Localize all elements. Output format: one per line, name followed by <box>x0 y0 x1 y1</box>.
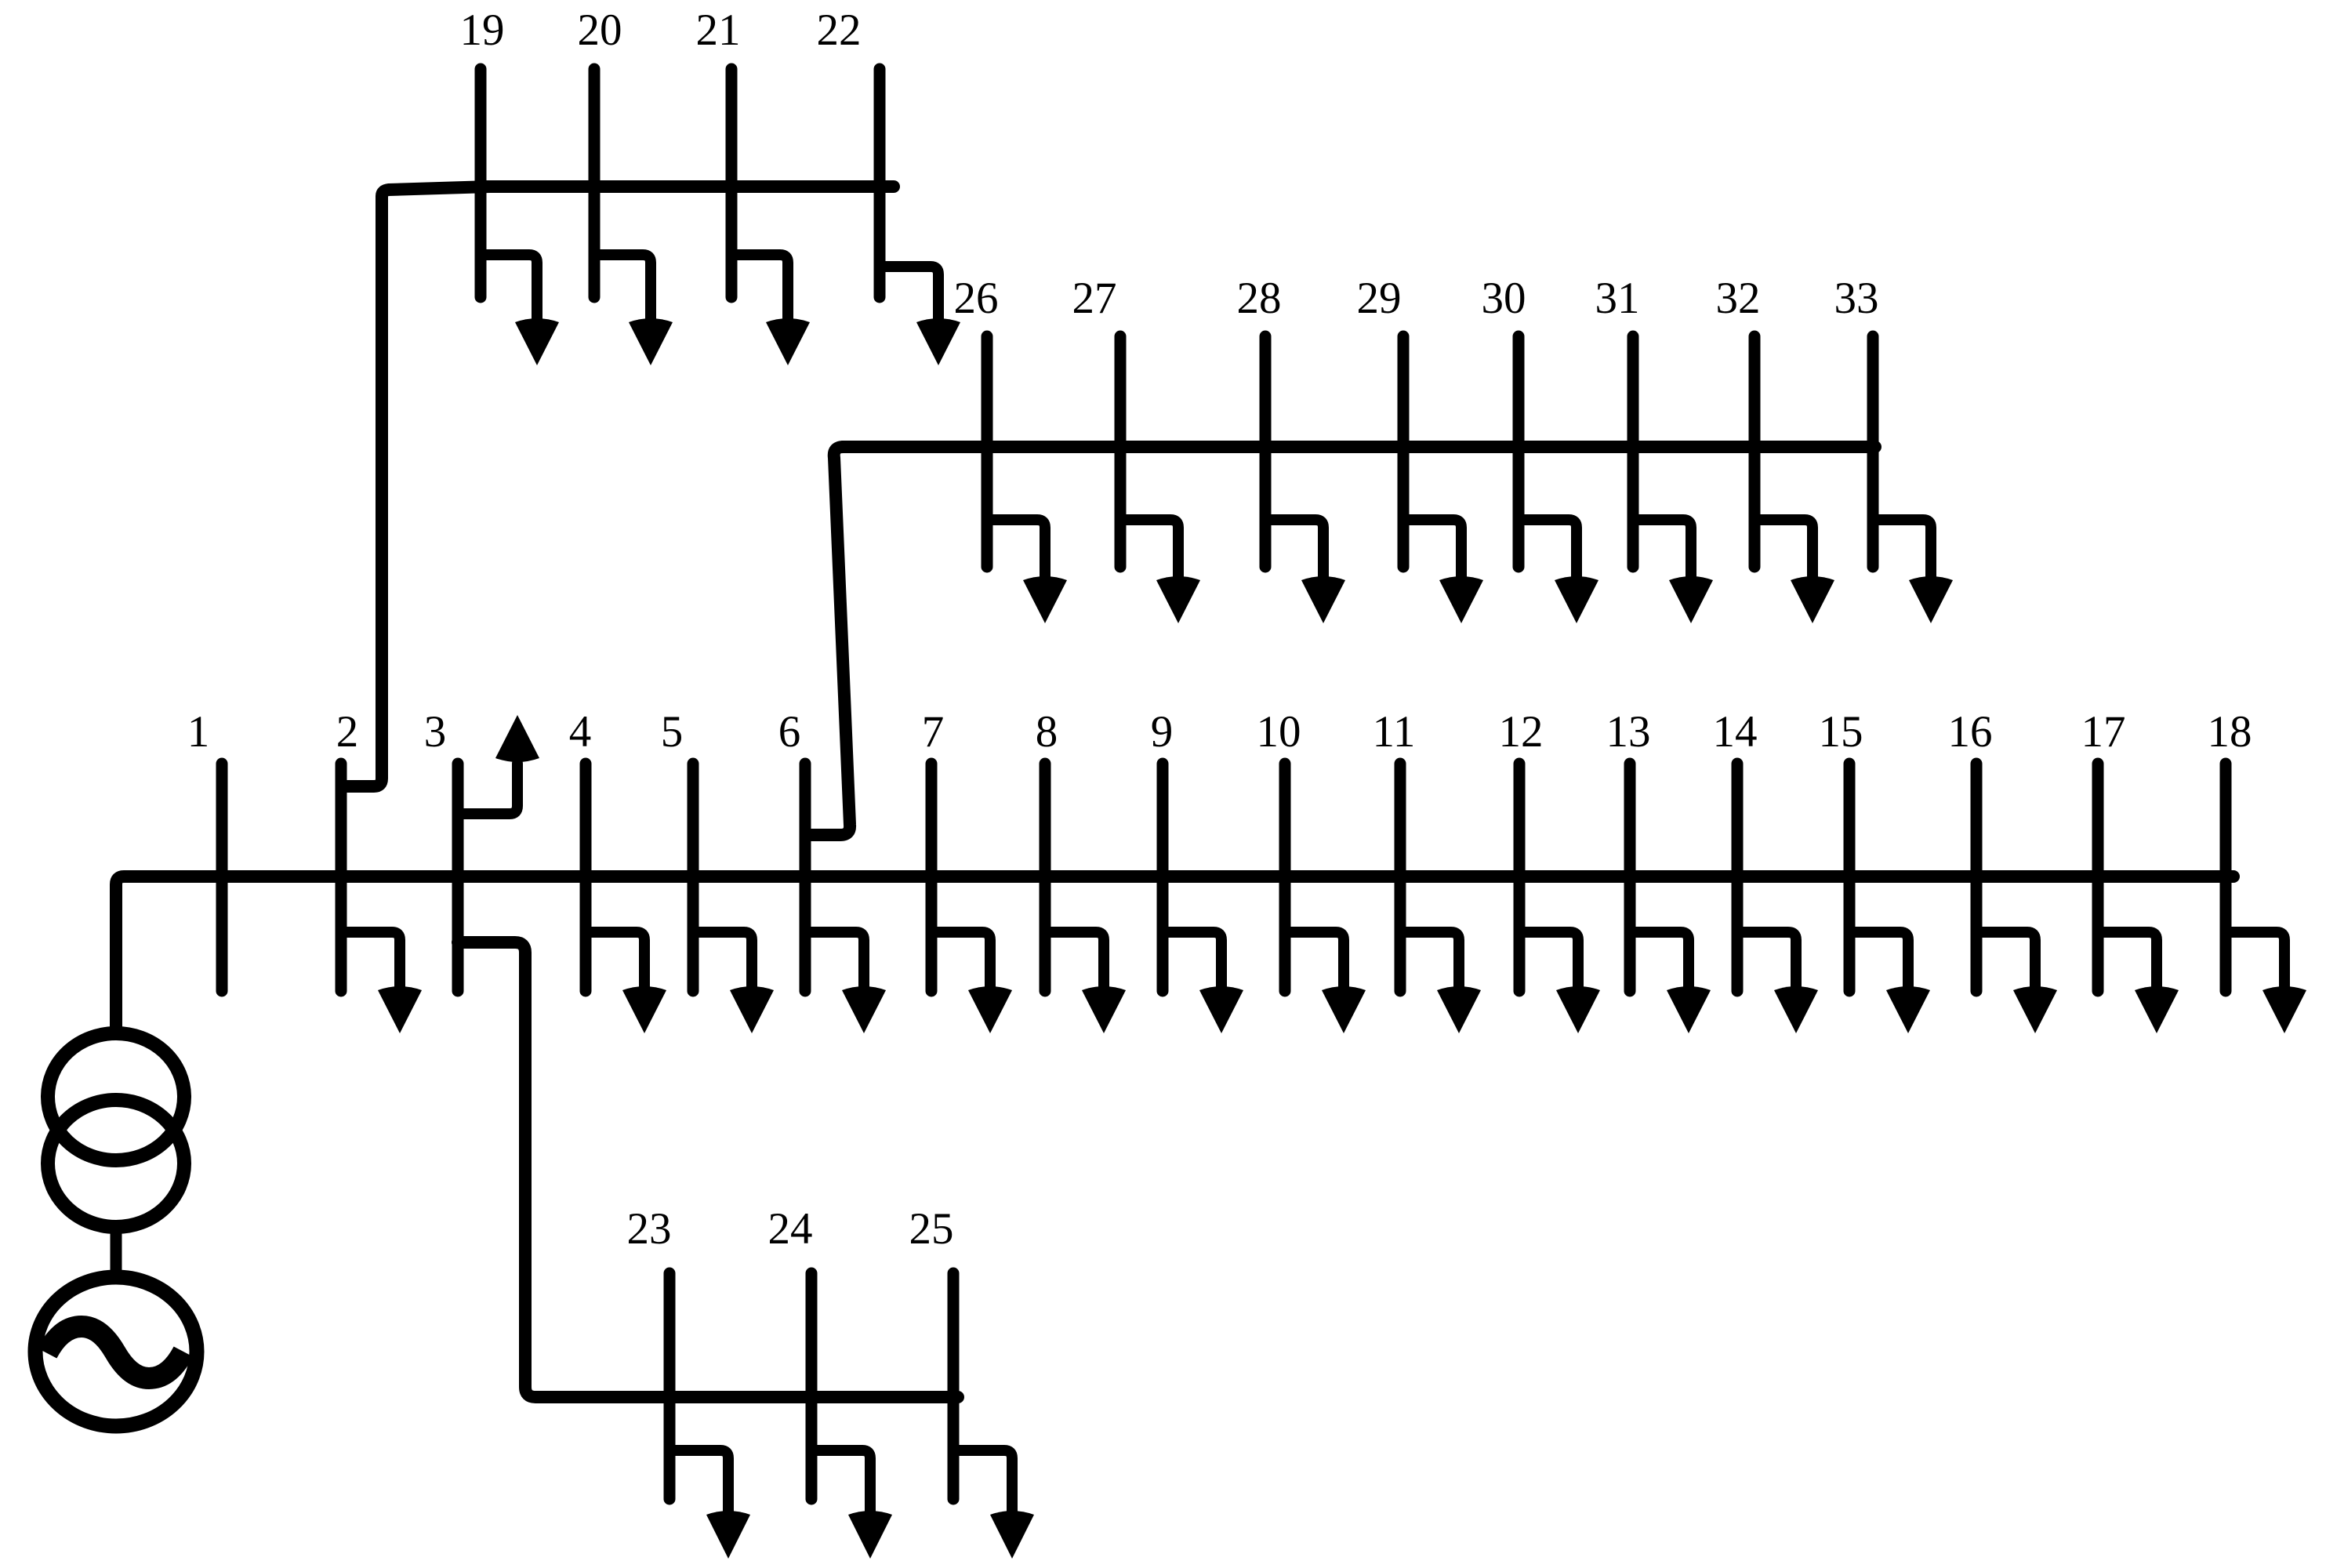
svg-text:32: 32 <box>1716 274 1761 323</box>
load arrow at bus 5 <box>693 932 774 1033</box>
load arrow at bus 13 <box>1630 932 1711 1033</box>
node 32 bus bar <box>1749 336 1761 567</box>
load arrow at bus 11 <box>1400 932 1481 1033</box>
load arrow at bus 21 <box>731 255 810 365</box>
load arrow at bus 9 <box>1163 932 1243 1033</box>
load arrow at bus 31 <box>1633 520 1713 623</box>
svg-text:26: 26 <box>954 274 999 323</box>
wire feeder across buses 26-33 <box>843 441 1875 453</box>
node 16 bus bar <box>1971 764 1983 991</box>
node label 11 <box>1373 707 1416 757</box>
node label 5 <box>661 707 684 757</box>
node 5 bus bar <box>688 764 699 991</box>
svg-text:17: 17 <box>2081 707 2126 757</box>
node 26 bus bar <box>982 336 993 567</box>
load arrow at bus 23 <box>669 1450 750 1559</box>
svg-text:30: 30 <box>1482 274 1526 323</box>
node label 18 <box>2208 707 2252 757</box>
svg-text:21: 21 <box>696 5 741 55</box>
svg-text:31: 31 <box>1595 274 1640 323</box>
node label 22 <box>817 5 862 55</box>
node 33 bus bar <box>1867 336 1879 567</box>
svg-text:20: 20 <box>578 5 622 55</box>
node label 3 <box>424 707 447 757</box>
node 12 bus bar <box>1514 764 1526 991</box>
node 10 bus bar <box>1279 764 1291 991</box>
node 18 bus bar <box>2220 764 2232 991</box>
svg-text:10: 10 <box>1257 707 1301 757</box>
AC source (grid) circle with sine <box>35 1277 197 1426</box>
node label 15 <box>1819 707 1863 757</box>
node 27 bus bar <box>1115 336 1127 567</box>
node label 29 <box>1357 274 1402 323</box>
load arrow at bus 20 <box>594 255 673 365</box>
load arrow at bus 15 <box>1849 932 1930 1033</box>
node label 27 <box>1072 274 1117 323</box>
svg-text:14: 14 <box>1713 707 1758 757</box>
node label 31 <box>1595 274 1640 323</box>
svg-text:6: 6 <box>778 707 801 757</box>
node 22 bus bar <box>874 69 886 297</box>
load arrow at bus 26 <box>987 520 1067 623</box>
node label 24 <box>768 1204 813 1254</box>
load arrow at bus 6 <box>805 932 886 1033</box>
node 1 bus bar <box>216 764 228 991</box>
load arrow at bus 4 <box>586 932 666 1033</box>
svg-text:5: 5 <box>661 707 684 757</box>
load arrow at bus 32 <box>1754 520 1834 623</box>
svg-text:2: 2 <box>336 707 359 757</box>
node label 1 <box>187 707 210 757</box>
wire main feeder from substation across buses 1-18 <box>116 877 2233 1034</box>
node label 19 <box>460 5 505 55</box>
node 11 bus bar <box>1395 764 1406 991</box>
wire top feeder across buses 19-22 <box>482 180 894 193</box>
transformer winding circle upper <box>48 1033 184 1160</box>
svg-text:13: 13 <box>1606 707 1651 757</box>
load arrow at bus 27 <box>1120 520 1200 623</box>
load arrow at bus 19 <box>481 255 559 365</box>
node 8 bus bar <box>1040 764 1051 991</box>
node 14 bus bar <box>1732 764 1744 991</box>
svg-text:11: 11 <box>1373 707 1416 757</box>
svg-text:19: 19 <box>460 5 505 55</box>
node 19 bus bar <box>475 69 487 297</box>
load arrow at bus 8 <box>1045 932 1126 1033</box>
node label 28 <box>1237 274 1282 323</box>
svg-text:1: 1 <box>187 707 210 757</box>
svg-text:25: 25 <box>909 1204 954 1254</box>
wire riser from bus 6 up to feeder 26-33 <box>807 447 850 835</box>
svg-text:12: 12 <box>1499 707 1544 757</box>
svg-text:7: 7 <box>922 707 945 757</box>
wire riser from bus 2 up to feeder 19-22 <box>343 187 490 786</box>
node 25 bus bar <box>948 1273 960 1499</box>
node label 17 <box>2081 707 2126 757</box>
node label 7 <box>922 707 945 757</box>
node 13 bus bar <box>1624 764 1636 991</box>
svg-text:15: 15 <box>1819 707 1863 757</box>
node label 4 <box>569 707 592 757</box>
svg-text:16: 16 <box>1948 707 1993 757</box>
node 2 bus bar <box>336 764 347 991</box>
node 6 bus bar <box>800 764 811 991</box>
node label 32 <box>1716 274 1761 323</box>
node 4 bus bar <box>580 764 592 991</box>
load arrow at bus 16 <box>1976 932 2057 1033</box>
load arrow at bus 33 <box>1873 520 1953 623</box>
node 30 bus bar <box>1513 336 1525 567</box>
load arrow at bus 28 <box>1265 520 1345 623</box>
load arrow at bus 12 <box>1519 932 1600 1033</box>
node label 25 <box>909 1204 954 1254</box>
node 20 bus bar <box>589 69 601 297</box>
svg-text:22: 22 <box>817 5 862 55</box>
node label 9 <box>1151 707 1174 757</box>
node 7 bus bar <box>926 764 938 991</box>
node 23 bus bar <box>664 1273 676 1499</box>
svg-text:33: 33 <box>1834 274 1879 323</box>
load arrow at bus 30 <box>1519 520 1598 623</box>
node label 21 <box>696 5 741 55</box>
load arrow at bus 18 <box>2226 932 2306 1033</box>
node label 6 <box>778 707 801 757</box>
transformer winding circle lower <box>48 1100 184 1227</box>
svg-text:3: 3 <box>424 707 447 757</box>
node 17 bus bar <box>2092 764 2104 991</box>
svg-text:28: 28 <box>1237 274 1282 323</box>
node 15 bus bar <box>1844 764 1856 991</box>
load arrow at bus 29 <box>1403 520 1483 623</box>
node label 8 <box>1036 707 1058 757</box>
load arrow at bus 7 <box>931 932 1012 1033</box>
node 31 bus bar <box>1627 336 1639 567</box>
svg-text:27: 27 <box>1072 274 1117 323</box>
load arrow at bus 22 <box>880 267 960 365</box>
node label 10 <box>1257 707 1301 757</box>
wire branch from bus 3 down to feeder 23-25 <box>458 942 958 1397</box>
load arrow at bus 24 <box>811 1450 892 1559</box>
svg-text:23: 23 <box>627 1204 672 1254</box>
node label 2 <box>336 707 359 757</box>
svg-text:9: 9 <box>1151 707 1174 757</box>
node label 12 <box>1499 707 1544 757</box>
node label 14 <box>1713 707 1758 757</box>
svg-text:4: 4 <box>569 707 592 757</box>
node 29 bus bar <box>1398 336 1410 567</box>
node label 30 <box>1482 274 1526 323</box>
node label 20 <box>578 5 622 55</box>
load arrow at bus 10 <box>1285 932 1366 1033</box>
node label 16 <box>1948 707 1993 757</box>
load arrow at bus 17 <box>2098 932 2179 1033</box>
load arrow at bus 25 <box>953 1450 1034 1559</box>
svg-text:18: 18 <box>2208 707 2252 757</box>
load arrow at bus 2 <box>341 932 422 1033</box>
svg-text:29: 29 <box>1357 274 1402 323</box>
node 21 bus bar <box>726 69 738 297</box>
node label 26 <box>954 274 999 323</box>
node label 13 <box>1606 707 1651 757</box>
node label 33 <box>1834 274 1879 323</box>
node 28 bus bar <box>1260 336 1272 567</box>
generator injection arrow at bus 3 <box>458 715 539 814</box>
wire transformer to AC source <box>111 1225 122 1279</box>
svg-text:8: 8 <box>1036 707 1058 757</box>
node 3 bus bar <box>452 764 464 991</box>
svg-text:24: 24 <box>768 1204 813 1254</box>
node 24 bus bar <box>806 1273 818 1499</box>
node label 23 <box>627 1204 672 1254</box>
load arrow at bus 14 <box>1737 932 1818 1033</box>
node 9 bus bar <box>1157 764 1169 991</box>
